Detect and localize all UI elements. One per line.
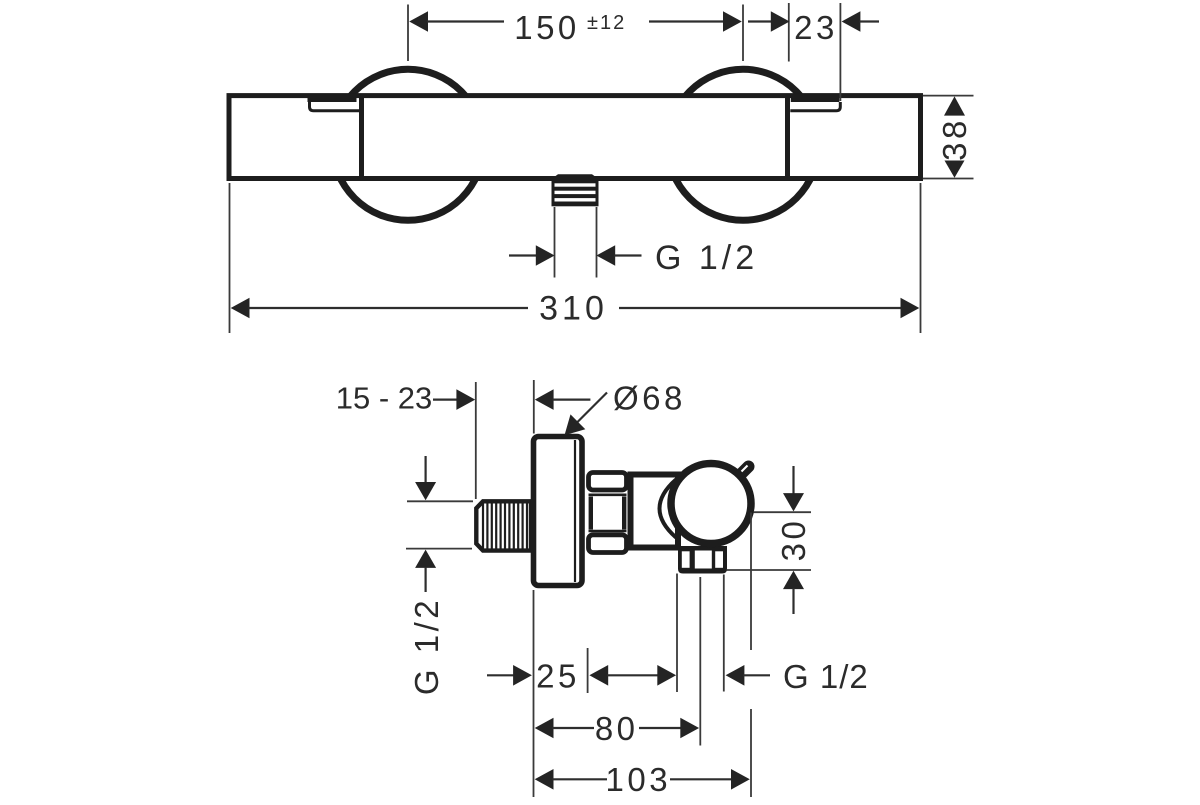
bottom outlet nipple (front view) xyxy=(552,174,599,206)
dimension 30 extension lines xyxy=(727,512,812,570)
dimension 310 extension lines xyxy=(230,183,921,333)
svg-text:15 - 23: 15 - 23 xyxy=(336,381,433,416)
dimension 23 extension line left xyxy=(788,3,790,62)
union nut bottom flange xyxy=(589,535,627,553)
dimension 80 right extension line xyxy=(699,577,701,746)
dimension 30 arrows xyxy=(783,466,804,614)
dimension 25 outside arrow left xyxy=(487,665,532,686)
valve body xyxy=(631,475,679,548)
wall face extension line xyxy=(533,590,535,797)
dimension 23 outside arrows xyxy=(748,11,879,32)
dimension 150 +-12 extension line left xyxy=(407,5,409,62)
union nut lower groove line xyxy=(589,530,627,533)
dimension 15-23 text xyxy=(336,381,433,416)
dimension 38 extension lines xyxy=(923,96,974,179)
G 1/2 text (front view) xyxy=(655,239,758,277)
outlet left extension line xyxy=(676,574,678,693)
svg-text:30: 30 xyxy=(775,518,812,562)
dimension text 103 xyxy=(606,761,672,798)
dimension text 23 xyxy=(794,9,838,46)
G 1/2 wall thread extension lines xyxy=(406,501,473,548)
right escutcheon circle xyxy=(668,69,819,220)
union nut barrel xyxy=(591,497,624,530)
dimension text 38 (rotated) xyxy=(936,117,973,161)
svg-text:±12: ±12 xyxy=(587,12,626,34)
left sleeve edge line xyxy=(359,98,364,177)
svg-text:80: 80 xyxy=(595,710,639,747)
svg-text:G 1/2: G 1/2 xyxy=(783,658,869,695)
left S-union tab xyxy=(308,95,360,111)
thermostat handle circle xyxy=(671,464,751,544)
dimension 15-23 extension lines xyxy=(476,380,534,499)
svg-text:103: 103 xyxy=(606,761,672,798)
dimension text 30 (rotated) xyxy=(775,518,812,562)
right sleeve edge line xyxy=(785,98,790,177)
svg-text:150: 150 xyxy=(514,9,580,46)
dimension 310 line and arrows xyxy=(231,298,920,319)
G 1/2 callout (front view) extension lines xyxy=(555,207,597,278)
dimension text 80 xyxy=(595,710,639,747)
G 1/2 wall thread text (rotated) xyxy=(408,597,445,695)
mixer bar body xyxy=(229,96,921,179)
left escutcheon circle xyxy=(333,69,484,220)
safety stop button xyxy=(742,466,749,474)
diameter 68 label xyxy=(565,380,686,436)
dimension text 150 xyxy=(514,9,626,46)
dimension text 25 xyxy=(536,657,580,694)
outlet right extension line xyxy=(723,575,725,692)
dimension 150 +-12 line and arrows xyxy=(409,11,742,32)
shower outlet thread (side view) xyxy=(678,546,727,574)
wall nipple thread (side view) xyxy=(476,501,531,550)
dimension 38 arrows xyxy=(944,96,965,177)
dimension 150 +-12 extension line right xyxy=(742,5,744,62)
union nut upper groove line xyxy=(589,493,627,496)
dimension 80 line and arrows xyxy=(535,718,699,739)
handle skirt arc xyxy=(660,480,677,538)
dimension 103 line and arrows xyxy=(535,769,750,790)
right S-union tab xyxy=(790,95,840,111)
dimension 15-23 arrows xyxy=(433,389,590,410)
svg-text:G 1/2: G 1/2 xyxy=(408,597,445,695)
svg-text:23: 23 xyxy=(794,9,838,46)
svg-text:38: 38 xyxy=(936,117,973,161)
dimension 23 extension line right xyxy=(839,3,841,101)
svg-text:25: 25 xyxy=(536,657,580,694)
G 1/2 wall thread callout arrows xyxy=(415,456,436,592)
dimension 103 right extension line xyxy=(750,513,752,798)
svg-text:310: 310 xyxy=(539,290,608,328)
escutcheon disc (side view) xyxy=(534,437,583,586)
svg-text:Ø68: Ø68 xyxy=(613,380,686,417)
G 1/2 callout (front view) arrows xyxy=(509,245,642,266)
dimension 25 outside arrow right / gap arrows xyxy=(589,665,676,686)
union nut top flange xyxy=(589,473,627,491)
svg-text:G 1/2: G 1/2 xyxy=(655,239,758,277)
dimension text 310 xyxy=(539,290,608,328)
disc face extension line xyxy=(587,648,589,693)
G 1/2 outlet callout xyxy=(726,658,869,695)
